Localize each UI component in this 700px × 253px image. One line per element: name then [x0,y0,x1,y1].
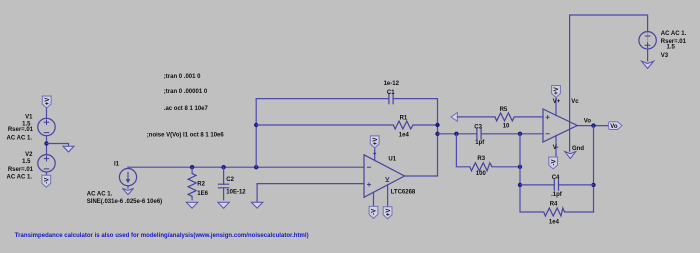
svg-text:;tran 0 .00001 0: ;tran 0 .00001 0 [164,89,208,95]
svg-text:LTC6268: LTC6268 [391,190,416,196]
node output branch [435,132,439,136]
svg-text:SINE(.031e-6 .025e-6 10e6): SINE(.031e-6 .025e-6 10e6) [87,199,162,205]
svg-text:1e4: 1e4 [549,219,560,225]
R1 feedback wire [256,124,437,126]
Vc net wire from V3 [570,15,648,151]
voltage source V3 [639,32,656,49]
flag V- below U1 [369,206,378,218]
Vo feedback vertical wire [593,126,595,212]
R2 labels [197,181,208,197]
V3 labels [661,31,687,59]
U1 V- pin wire (bottom left) [373,192,375,206]
flag V+ below U1 [383,207,392,219]
C2 labels [226,177,246,195]
Gnd net flag arrow [565,152,576,159]
svg-text:;noise V(Vo) I1 oct 8 1 10e6: ;noise V(Vo) I1 oct 8 1 10e6 [147,132,225,138]
op-amp U1 LTC6268 [364,155,405,198]
R5 wire [457,116,543,118]
svg-text:1.5: 1.5 [22,159,31,165]
wire to ground [47,144,69,147]
resistor R3 [470,163,492,171]
U1 shdn pin wire (bottom right) [387,185,389,207]
R4 labels [549,202,560,226]
U1 output wire [405,175,438,177]
voltage source V1 [38,118,55,135]
svg-text:100: 100 [476,171,487,177]
svg-text:Vo: Vo [610,124,618,130]
svg-text:10E-12: 10E-12 [226,190,246,196]
svg-text:Rser=.01: Rser=.01 [8,127,34,133]
svg-text:U1: U1 [388,157,396,163]
U2 V- pin wire (bottom) [555,136,557,158]
svg-text:1E6: 1E6 [197,191,208,197]
svg-text:1pf: 1pf [475,140,485,146]
R5 labels [500,107,510,129]
C3 labels [474,124,485,146]
capacitor C4 wires [520,184,594,186]
flag V- below U2 [549,157,558,169]
wire V2 to flag [46,172,48,175]
ground at U1 + input [251,202,262,208]
svg-text:1e4: 1e4 [399,132,410,138]
svg-text:C3: C3 [474,124,482,130]
R3 branch wires [456,134,520,167]
svg-text:C1: C1 [387,90,395,96]
resistor R5 [495,113,514,121]
svg-text:;tran 0 .001 0: ;tran 0 .001 0 [164,74,201,80]
node C2 tap [221,165,225,169]
svg-text:AC AC 1.: AC AC 1. [7,135,33,141]
svg-text:V+: V+ [553,99,561,105]
node R3 branch [454,132,458,136]
svg-text:1e-12: 1e-12 [384,81,400,87]
svg-text:V1: V1 [25,115,33,121]
resistor R4 [544,208,565,216]
U2 V+ pin wire (top) [555,97,557,116]
C4 labels [551,175,563,198]
svg-text:AC AC 1.: AC AC 1. [661,31,687,37]
node Vo [591,123,595,127]
ground (V1/V2 midpoint) [63,146,74,152]
svg-text:+V: +V [45,98,51,106]
svg-text:Vo: Vo [584,118,592,124]
svg-text:+V: +V [554,87,560,95]
svg-text:-V: -V [44,178,50,184]
svg-text:-V: -V [372,209,378,215]
svg-text:Transimpedance calculator is a: Transimpedance calculator is also used f… [15,233,309,239]
node feedback tap [254,165,258,169]
node right of C3 [518,132,522,136]
resistor R1 [393,121,413,129]
svg-text:I1: I1 [114,161,120,167]
wire to C3 network [438,133,544,135]
svg-text:Vc: Vc [571,99,579,105]
capacitor C3 [477,128,481,140]
ground under R2 [186,202,197,208]
feedback vertical wire [255,99,257,168]
svg-text:AC AC 1.: AC AC 1. [87,192,113,198]
node C4 right [591,183,595,187]
svg-text:1.5: 1.5 [667,45,676,51]
capacitor C4 [554,179,558,191]
svg-text:.1pf: .1pf [551,192,563,198]
R3 labels [476,156,487,177]
V1 labels [7,115,34,142]
node R2 tap [190,165,194,169]
voltage source V2 [38,155,55,172]
V3 bottom wire [647,49,649,61]
op-amp U2 [543,109,577,142]
V2 labels [7,152,34,180]
svg-text:R5: R5 [500,107,508,113]
svg-text:V-: V- [553,145,559,151]
svg-text:C2: C2 [226,177,234,183]
svg-text:-V: -V [551,160,557,166]
svg-text:V3: V3 [661,53,669,59]
C1 feedback wire [256,99,437,176]
flag V- (bottom left) [42,175,51,187]
port Vo [608,122,622,130]
svg-text:Gnd: Gnd [572,146,584,152]
ground under I1 [127,186,129,188]
ground arrow under V3 [642,61,654,68]
flag V+ above U2 [552,86,561,98]
R1 labels [399,116,410,139]
svg-text:+V: +V [386,209,392,217]
svg-text:R1: R1 [400,116,408,122]
left feedback vertical wire [520,134,594,212]
node R1 line tap [254,123,258,127]
input port arrow (R5 left) [451,113,458,122]
svg-text:R3: R3 [477,156,485,162]
C1 labels [384,81,400,96]
ground under C2 [218,202,229,208]
svg-text:.ac oct 8 1 10e7: .ac oct 8 1 10e7 [164,106,209,112]
svg-text:C4: C4 [552,175,560,181]
U1 + input wire to ground [257,184,364,202]
svg-text:Rser=.01: Rser=.01 [8,167,34,173]
svg-text:R2: R2 [197,181,205,187]
flag V+ above U1 [370,136,379,148]
svg-text:10: 10 [503,123,510,129]
wire V1 to V2 [46,136,48,155]
node junction between V1/V2 [44,141,48,145]
svg-text:R4: R4 [550,202,558,208]
resistor R2 [188,167,196,200]
node R3 right [518,165,522,169]
flag V+ (top left) [42,96,51,108]
wire flag to V1 [46,108,48,118]
I1 source text [87,192,162,206]
svg-text:AC AC 1.: AC AC 1. [7,175,33,181]
main input net wire [128,166,364,168]
svg-text:+V: +V [373,138,379,146]
current source I1 [119,169,136,186]
svg-text:V2: V2 [25,152,33,158]
wire I1 top [127,167,129,168]
node C4 left [518,183,522,187]
U2 output wire [577,125,608,127]
capacitor C2 [218,167,229,200]
node R1/output [435,123,439,127]
capacitor C1 [389,93,393,105]
U1 V+ pin wire (top) [374,148,376,161]
